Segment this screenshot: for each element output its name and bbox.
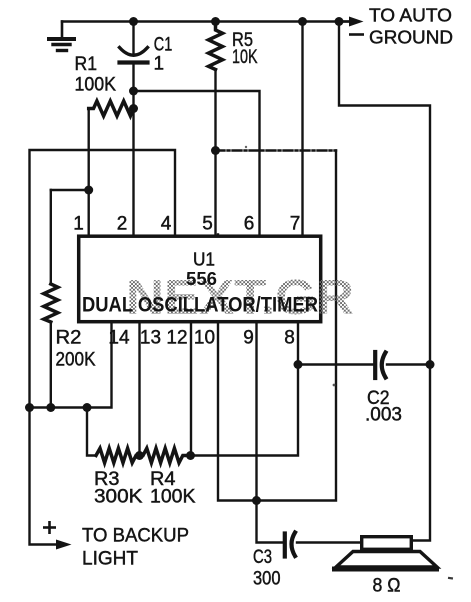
wire bottom rail — [30, 324, 112, 408]
wire pin1 line — [87, 109, 89, 235]
svg-text:12: 12 — [166, 328, 187, 349]
wire pin9 line to C3 — [257, 324, 283, 543]
wire R3 left drop — [87, 408, 95, 456]
resistor R1 — [89, 101, 134, 116]
svg-text:7: 7 — [290, 214, 301, 235]
wire pin2 to pin6 link — [134, 91, 260, 235]
node R2/pin1 junction — [84, 186, 93, 195]
wire pin8 to C2 — [298, 363, 373, 365]
wire C3 to speaker — [297, 541, 361, 543]
noise speck B — [245, 146, 247, 148]
speaker LS1 magnet — [362, 537, 412, 550]
node pin5 link junction — [211, 146, 220, 155]
wire C2 right lead — [387, 363, 430, 365]
wire pin13 line — [138, 324, 140, 456]
svg-text:13: 13 — [140, 328, 161, 349]
resistor R2 — [44, 284, 58, 322]
svg-text:1: 1 — [73, 214, 84, 235]
arrowhead to auto ground — [349, 17, 364, 27]
wire pin2 line (C1 to IC pin 2) — [132, 63, 134, 235]
wire left rail to backup light — [30, 408, 57, 545]
arrowhead to backup light — [56, 540, 72, 550]
wire pin5 to right riser link (dash-dot) — [216, 149, 337, 151]
capacitor C1 — [120, 48, 148, 63]
node pin2/pin6 junction — [129, 87, 138, 96]
wire R2 upper lead — [50, 190, 52, 284]
wire right branch to speaker — [339, 22, 430, 541]
noise speck — [448, 577, 453, 580]
node R1/C1 junction — [129, 104, 138, 113]
svg-text:C1: C1 — [154, 35, 173, 56]
wire pin5 line — [214, 70, 216, 235]
wire pin7 line — [301, 22, 303, 235]
capacitor C2 — [375, 352, 385, 378]
pin numbers top — [73, 214, 300, 235]
wire pin8 to R4 link — [191, 324, 299, 456]
wire top rail — [62, 20, 350, 22]
svg-text:8: 8 — [284, 328, 295, 349]
svg-text:2: 2 — [117, 214, 128, 235]
svg-text:556: 556 — [186, 268, 217, 289]
svg-text:14: 14 — [108, 328, 130, 349]
node C2 right junction — [426, 360, 435, 369]
resistor R5 — [209, 22, 223, 70]
node C1 top rail — [129, 17, 138, 26]
node R2 bottom — [46, 403, 55, 412]
svg-text:300: 300 — [253, 569, 281, 590]
node pin7 top rail — [298, 17, 307, 26]
node left rail bottom — [25, 403, 34, 412]
svg-text:6: 6 — [244, 214, 255, 235]
svg-text:100K: 100K — [150, 487, 196, 508]
svg-text:R2: R2 — [56, 328, 82, 349]
svg-text:10K: 10K — [232, 47, 258, 68]
svg-text:TO BACKUP: TO BACKUP — [82, 526, 189, 547]
svg-text:TO AUTO: TO AUTO — [369, 5, 452, 26]
pin numbers bottom — [108, 328, 294, 349]
svg-text:10: 10 — [194, 328, 215, 349]
node R5 top rail — [211, 17, 220, 26]
svg-text:9: 9 — [243, 328, 254, 349]
speaker LS1 cone — [336, 552, 437, 568]
svg-text:DUAL OSCILLATOR/TIMER: DUAL OSCILLATOR/TIMER — [82, 294, 318, 317]
speaker LS1 bottom bar — [332, 567, 439, 572]
node R3/R4 junction — [135, 451, 144, 460]
svg-text:4: 4 — [161, 214, 172, 235]
svg-text:LIGHT: LIGHT — [82, 549, 138, 570]
ground dash before GROUND — [349, 33, 364, 36]
ground — [49, 22, 74, 51]
wire pin12 line — [190, 324, 192, 456]
wire R2 top link — [51, 189, 89, 191]
svg-text:8 Ω: 8 Ω — [373, 576, 401, 597]
node R3 drop — [83, 403, 92, 412]
IC U1 556 dual oscillator/timer box — [79, 236, 321, 322]
node R4/pin12/pin8 junction — [186, 451, 195, 460]
label plus sign — [43, 521, 56, 534]
svg-text:1: 1 — [154, 54, 165, 75]
svg-text:C3: C3 — [253, 547, 272, 568]
svg-text:100K: 100K — [75, 75, 117, 96]
capacitor C3 — [285, 533, 295, 557]
resistor R4 — [140, 448, 191, 463]
svg-text:U1: U1 — [193, 250, 215, 270]
wire to-auto arrow lead — [339, 20, 351, 22]
svg-text:5: 5 — [202, 214, 213, 235]
svg-text:GROUND: GROUND — [369, 27, 453, 48]
node pin9/pin10 rail junction — [252, 496, 261, 505]
node pin8/C2 junction — [294, 360, 303, 369]
noise speck A — [333, 384, 336, 387]
svg-text:300K: 300K — [94, 487, 143, 508]
wire pin4 to left rail — [30, 150, 176, 408]
wire R2 lower lead — [50, 322, 52, 408]
wire right riser to pin10 rail — [218, 151, 336, 501]
node right branch top rail — [335, 17, 344, 26]
svg-text:R1: R1 — [75, 54, 98, 75]
wire C1 top lead — [132, 22, 134, 56]
svg-text:.003: .003 — [365, 405, 402, 426]
svg-text:200K: 200K — [56, 350, 96, 371]
resistor R3 — [96, 448, 140, 463]
